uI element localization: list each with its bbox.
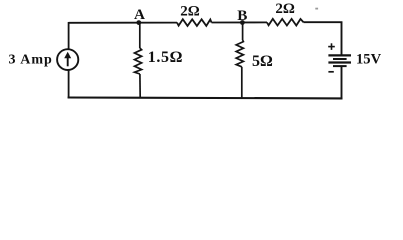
- svg-text:5Ω: 5Ω: [252, 53, 273, 70]
- wire top rail left segment (corner to node A to resistor): [69, 22, 178, 24]
- resistor R 5ohm vertical zigzag: [236, 40, 243, 67]
- wire top rail middle segment (resistor to node B to resistor): [212, 21, 268, 23]
- svg-text:B: B: [237, 7, 247, 24]
- svg-text:3 Amp: 3 Amp: [9, 53, 53, 68]
- wire left rail above current source: [68, 22, 70, 49]
- wire node B down to resistor: [242, 23, 244, 41]
- svg-text:2Ω: 2Ω: [180, 4, 200, 20]
- wire right rail below battery: [341, 66, 343, 98]
- node B junction dot: [240, 20, 245, 25]
- svg-text:A: A: [134, 6, 145, 23]
- wire resistor 5ohm down to bottom rail: [241, 67, 243, 99]
- wire left rail below current source: [68, 70, 70, 98]
- current source I1 arrow: [64, 52, 71, 67]
- wire top rail right segment (resistor to top-right corner): [304, 21, 343, 23]
- battery plus sign: [328, 43, 335, 50]
- speck artifact: [315, 8, 318, 10]
- resistor R 2ohm left horizontal zigzag: [177, 19, 212, 26]
- resistor R 2ohm right horizontal zigzag: [267, 19, 304, 26]
- svg-text:15V: 15V: [356, 52, 382, 68]
- wire bottom rail: [68, 96, 343, 99]
- battery V1 15V plates: [328, 55, 351, 66]
- wire resistor 1.5ohm down to bottom rail: [139, 74, 141, 98]
- node A junction dot: [136, 20, 141, 25]
- current source I1 circle: [57, 49, 78, 70]
- svg-text:2Ω: 2Ω: [275, 1, 295, 17]
- resistor R 1.5ohm vertical zigzag: [135, 48, 142, 74]
- wire node A down to resistor: [139, 23, 141, 48]
- wire right rail above battery: [341, 22, 343, 56]
- battery minus sign: [328, 71, 333, 73]
- svg-text:1.5Ω: 1.5Ω: [148, 49, 183, 66]
